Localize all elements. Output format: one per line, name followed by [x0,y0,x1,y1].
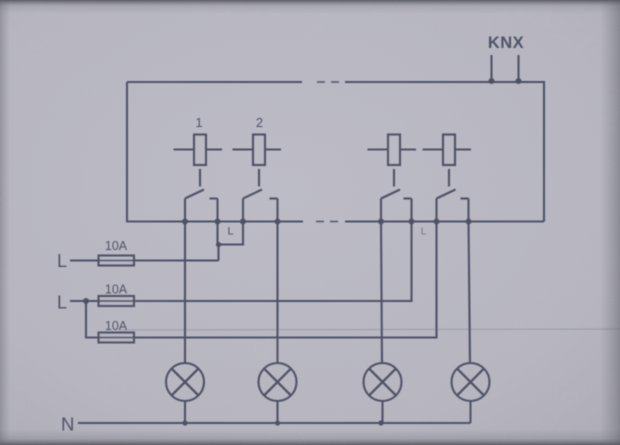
lamp E3 [364,363,402,401]
switch contact 3 [381,190,412,222]
lamp E4 [452,363,490,401]
wire lamp 2 to N [276,401,278,423]
wire L3 branch [86,301,99,338]
wire ch4 output to lamp 4 [469,222,471,365]
wire L1 lead [70,259,99,261]
wire lamp 1 to N [184,401,186,423]
switch contact 2 [243,190,278,222]
wire lamp 4 to N [469,401,471,423]
relay drive 1 [174,135,223,187]
node ch1 L [215,219,221,225]
relay drive 3 [368,135,417,187]
node N lamp3 [378,420,383,425]
KNX bus wire 1 [490,55,492,82]
wire ch2 output to lamp 2 [276,222,278,365]
wire L1 to ch1/2 [134,259,219,261]
node ch4 L [434,219,440,225]
node ch3 output [378,219,384,225]
wire L3 to ch4 [134,222,437,338]
node ch4 output [466,219,472,225]
paper crease artifact [120,329,620,330]
node KNX wire 2 [516,78,522,84]
node ch1 output [182,219,188,225]
switch contact 1 [185,190,218,222]
node L box feed [216,242,221,247]
node N lamp1 [182,420,187,425]
L terminal box channels 1+2 [218,222,244,245]
wire L2 lead [70,300,99,302]
soft mottling [0,0,1,1]
N wire [78,422,471,424]
node ch2 L [240,219,246,225]
film grain [0,0,1,1]
node ch3 L [409,219,415,225]
node L2 branch [83,298,89,304]
wire ch1 output to lamp 1 [184,222,186,365]
fuse F2 [99,296,135,306]
fuse F3 [99,333,135,343]
KNX bus wire 2 [517,55,519,82]
node KNX wire 1 [489,78,495,84]
relay drive 4 [423,135,472,187]
actuator enclosure outline [127,82,544,222]
wire ch3 output to lamp 3 [381,222,382,365]
wire lamp 3 to N [381,401,383,423]
node ch2 output [275,219,281,225]
lamp E1 [166,363,204,401]
lamp E2 [259,363,297,401]
wire L2 to ch3 [134,222,412,302]
fuse F1 [99,256,135,266]
relay drive 2 [233,135,282,187]
node N lamp2 [275,420,280,425]
switch contact 4 [437,190,469,222]
wire L box feed [217,245,219,261]
